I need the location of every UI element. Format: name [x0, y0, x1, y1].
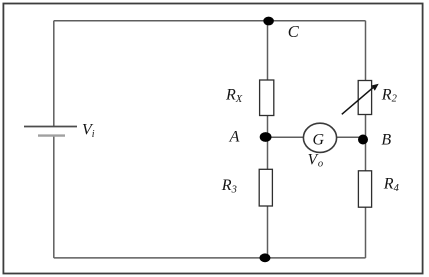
- wire middle upper (node C to RX): [267, 21, 269, 80]
- R2 variable arrow: [342, 84, 379, 115]
- svg-text:A: A: [229, 129, 240, 146]
- wire galvanometer to node B: [337, 136, 363, 138]
- wire middle center (RX to R3 through node A): [267, 116, 269, 170]
- node A: [260, 132, 272, 142]
- wire node A to galvanometer: [266, 136, 304, 138]
- wire right middle (R2 to R4 through node B): [365, 114, 367, 171]
- battery V_i top plate: [24, 126, 77, 128]
- wire bottom: [54, 257, 366, 259]
- wire right lower (R4 to bottom): [365, 207, 367, 258]
- battery V_i bottom plate: [38, 134, 65, 136]
- wire right upper (C row to R2): [365, 21, 367, 81]
- node C: [263, 17, 274, 26]
- node B: [358, 135, 368, 145]
- svg-text:C: C: [288, 22, 300, 41]
- wire left upper (to battery): [53, 21, 55, 127]
- resistor R2 box: [358, 81, 371, 115]
- node bottom junction: [260, 253, 271, 262]
- resistor R4 box: [358, 171, 371, 207]
- galvanometer G: [303, 123, 336, 152]
- resistor RX box: [260, 80, 274, 116]
- wire top (C row): [54, 20, 366, 22]
- wire left lower (battery to bottom): [53, 136, 55, 258]
- svg-text:G: G: [313, 132, 325, 149]
- wire middle lower (R3 to bottom node): [267, 206, 269, 258]
- resistor R3 box: [259, 169, 272, 206]
- svg-text:B: B: [381, 131, 391, 148]
